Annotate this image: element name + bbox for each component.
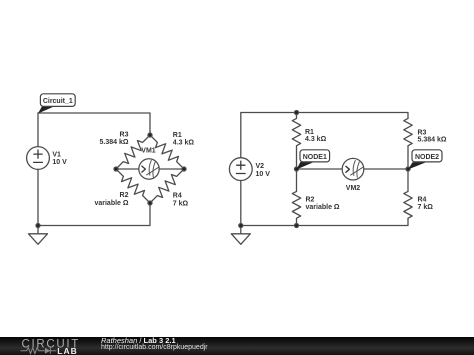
resistor R3 (right circuit, 5.384 kOhm) [404,118,412,169]
svg-text:variable Ω: variable Ω [306,204,340,211]
svg-text:7 kΩ: 7 kΩ [173,200,189,207]
svg-text:LAB: LAB [57,346,77,355]
svg-text:VM1: VM1 [141,147,156,154]
voltage source V1 [27,147,50,170]
label R2 name/value (left circuit) [94,192,128,207]
wire: NODE1 to VM2 [297,168,343,170]
label R4 name/value (left circuit) [173,193,189,208]
footer url text [101,344,208,351]
node flag NODE2 [408,150,442,170]
resistor R2 (bridge lower-left, variable) [116,169,150,203]
wire: right circuit top rail [241,113,408,158]
svg-text:R3: R3 [120,132,129,139]
svg-text:R4: R4 [173,193,182,200]
node: NODE2 junction [406,167,410,171]
svg-text:10 V: 10 V [256,171,271,178]
wire: bridge left node to VM1 [116,168,139,170]
svg-text:7 kΩ: 7 kΩ [418,204,434,211]
wire: left circuit bottom rail [38,203,150,226]
svg-text:5.384 kΩ: 5.384 kΩ [418,137,447,144]
resistor R2 (right circuit, variable) [292,169,300,226]
footer bar [0,337,474,355]
svg-text:10 V: 10 V [52,159,67,166]
resistor R3 (bridge upper-left, 5.384 kOhm) [116,135,150,169]
label R1 name/value (right circuit) [305,129,327,143]
node: V1 ground junction [36,224,40,228]
svg-text:V2: V2 [256,163,265,170]
label V2 name/value [256,163,271,178]
svg-text:R1: R1 [173,132,182,139]
node: bridge bottom junction [148,201,152,205]
node: top rail junction at R1 [295,111,299,115]
resistor R4 (bridge lower-right, 7 kOhm) [150,169,184,203]
wire: V2 bottom to ground rail [240,181,242,226]
svg-text:R4: R4 [418,197,427,204]
svg-text:R2: R2 [120,192,129,199]
svg-text:R1: R1 [305,129,314,136]
label V1 name/value [52,151,67,166]
svg-text:V1: V1 [52,151,61,158]
wire: VM1 to bridge right node [159,168,184,170]
svg-text:4.3 kΩ: 4.3 kΩ [305,136,327,143]
label R2 name/value (right circuit) [306,197,340,211]
node flag NODE1 [297,150,330,170]
svg-text:R3: R3 [418,129,427,136]
resistor R4 (right circuit, 7 kOhm) [404,169,412,219]
wire: V1 bottom to ground rail [37,169,39,225]
wire: right circuit bottom rail [241,219,408,225]
svg-text:NODE2: NODE2 [415,154,439,161]
voltmeter VM2 [342,158,364,180]
node: bottom rail junction at R2 [295,224,299,228]
svg-text:5.384 kΩ: 5.384 kΩ [100,139,129,146]
wire: left circuit top rail [38,113,150,147]
svg-text:NODE1: NODE1 [303,154,327,161]
label VM1 [141,147,156,154]
node: NODE1 junction [295,167,299,171]
label VM2 [346,185,361,192]
voltage source V2 [229,158,252,181]
label R3 name/value (right circuit) [418,129,447,143]
node: bridge right junction [182,167,186,171]
node: V2 ground junction [239,224,243,228]
ground (right circuit) [231,226,250,245]
ground (left circuit) [29,226,48,245]
resistor R1 (right circuit, 4.3 kOhm) [292,113,300,170]
svg-text:variable Ω: variable Ω [94,200,128,207]
footer title text [101,336,176,345]
node: bridge top junction [148,133,152,137]
label R1 name/value (left circuit) [173,132,195,147]
resistor R1 (bridge upper-right, 4.3 kOhm) [150,135,184,169]
node: bridge left junction [114,167,118,171]
svg-text:VM2: VM2 [346,185,361,192]
wire: VM2 to NODE2 [363,168,408,170]
label Circuit_1 flag [38,94,75,114]
label R3 name/value (left circuit) [100,132,129,147]
svg-text:Circuit_1: Circuit_1 [43,98,73,105]
label R4 name/value (right circuit) [418,197,434,211]
CircuitLab logo [0,337,90,355]
svg-text:4.3 kΩ: 4.3 kΩ [173,139,195,146]
voltmeter VM1 [139,159,159,179]
svg-text:R2: R2 [306,197,315,204]
